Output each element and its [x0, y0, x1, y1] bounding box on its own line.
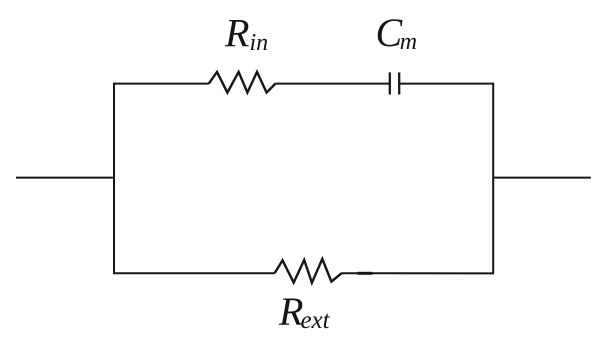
svg-text:Rin: Rin [224, 11, 268, 56]
svg-text:Cm: Cm [376, 10, 418, 55]
svg-text:Rext: Rext [278, 289, 331, 334]
